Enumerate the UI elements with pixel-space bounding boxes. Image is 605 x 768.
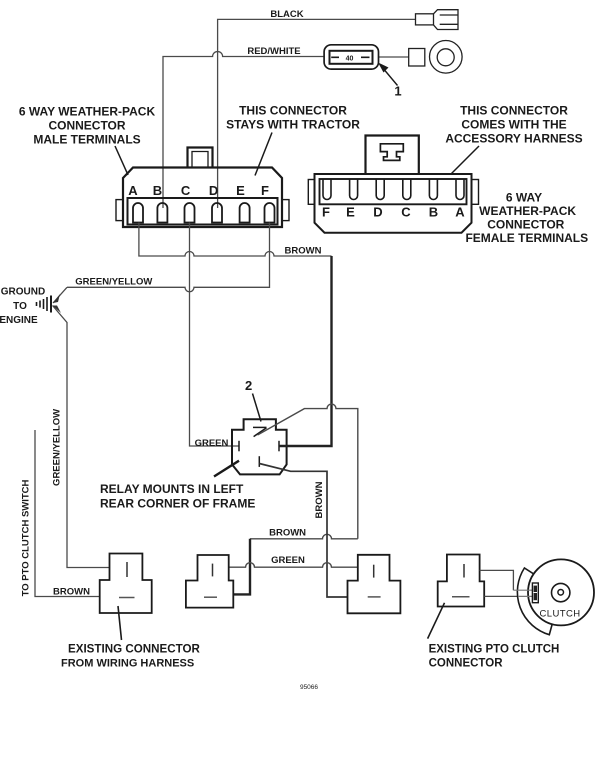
svg-text:GREEN: GREEN [271,555,305,566]
svg-text:COMES WITH THE: COMES WITH THE [461,118,566,132]
svg-text:EXISTING PTO CLUTCH: EXISTING PTO CLUTCH [429,644,560,656]
svg-text:RELAY MOUNTS IN LEFT: RELAY MOUNTS IN LEFT [100,482,244,496]
svg-text:F: F [322,204,330,219]
svg-text:6 WAY WEATHER-PACK: 6 WAY WEATHER-PACK [19,105,156,119]
svg-text:STAYS WITH TRACTOR: STAYS WITH TRACTOR [226,118,360,132]
svg-text:GREEN/YELLOW: GREEN/YELLOW [52,409,63,486]
svg-text:95066: 95066 [300,684,318,691]
svg-text:D: D [373,204,382,219]
svg-text:B: B [153,183,162,198]
svg-text:GROUND: GROUND [1,287,45,298]
svg-text:FEMALE TERMINALS: FEMALE TERMINALS [465,231,588,245]
svg-text:E: E [346,204,355,219]
svg-text:B: B [429,204,438,219]
svg-text:D: D [209,183,218,198]
svg-text:CONNECTOR: CONNECTOR [48,119,125,133]
svg-text:CONNECTOR: CONNECTOR [487,218,564,232]
svg-text:CLUTCH: CLUTCH [540,609,581,620]
svg-text:FROM WIRING HARNESS: FROM WIRING HARNESS [61,658,194,670]
svg-text:REAR CORNER OF FRAME: REAR CORNER OF FRAME [100,497,255,511]
svg-text:BROWN: BROWN [53,587,90,598]
svg-text:E: E [236,183,245,198]
svg-text:A: A [128,183,138,198]
svg-text:BROWN: BROWN [269,528,306,539]
svg-text:WEATHER-PACK: WEATHER-PACK [479,204,576,218]
svg-text:C: C [181,183,191,198]
svg-text:CONNECTOR: CONNECTOR [429,658,504,670]
svg-text:A: A [455,204,465,219]
svg-text:RED/WHITE: RED/WHITE [247,46,300,57]
svg-text:2: 2 [245,378,252,393]
svg-text:GREEN/YELLOW: GREEN/YELLOW [75,277,152,288]
svg-text:BROWN: BROWN [314,481,325,518]
svg-text:BLACK: BLACK [270,9,303,20]
svg-text:ENGINE: ENGINE [0,315,38,326]
svg-text:BROWN: BROWN [285,246,322,257]
svg-text:C: C [401,204,411,219]
svg-text:1: 1 [394,84,401,99]
svg-text:THIS CONNECTOR: THIS CONNECTOR [460,104,568,118]
svg-text:F: F [261,183,269,198]
svg-text:TO: TO [13,301,27,312]
svg-text:MALE TERMINALS: MALE TERMINALS [33,133,140,147]
svg-text:40: 40 [346,55,354,62]
svg-text:6 WAY: 6 WAY [506,191,542,205]
svg-text:TO PTO CLUTCH SWITCH: TO PTO CLUTCH SWITCH [21,479,32,596]
svg-text:GREEN: GREEN [195,438,229,449]
svg-text:ACCESSORY HARNESS: ACCESSORY HARNESS [445,132,582,146]
svg-text:THIS CONNECTOR: THIS CONNECTOR [239,104,347,118]
svg-text:EXISTING CONNECTOR: EXISTING CONNECTOR [68,643,200,656]
